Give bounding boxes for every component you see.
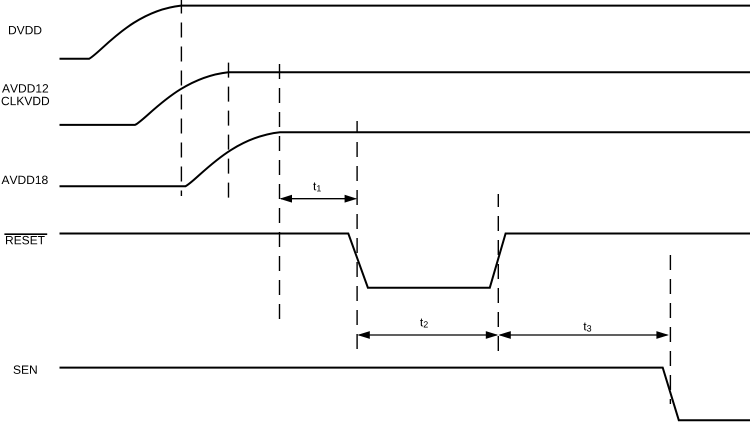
wire SEN waveform xyxy=(60,368,750,421)
dashed line 5 (RESET rising edge, x=498.3) xyxy=(497,194,499,351)
wire AVDD18 waveform xyxy=(60,132,750,186)
dashed line 1 (DVDD settled, x=181) xyxy=(180,0,182,196)
label t3 xyxy=(584,323,592,332)
dimension arrow t2 xyxy=(357,331,498,339)
dimension arrow t3 xyxy=(498,331,669,339)
label RESET xyxy=(6,236,45,245)
label CLKVDD xyxy=(2,97,50,106)
label SEN xyxy=(14,365,37,374)
wire RESET waveform xyxy=(60,234,750,288)
dashed line 2 (AVDD12 settled, x=228.5) xyxy=(228,63,230,198)
dashed line 6 (SEN falling edge, x=670.4) xyxy=(669,255,671,404)
dashed line 3 (AVDD18 settled, x=279.5) xyxy=(279,63,281,319)
label t2 xyxy=(420,319,428,328)
dimension arrow t1 xyxy=(280,195,358,203)
wire RESET overline xyxy=(4,233,47,235)
dashed line 4 (RESET falling edge, x=357) xyxy=(356,121,358,349)
wire AVDD12/CLKVDD waveform xyxy=(60,72,750,125)
label AVDD12 xyxy=(2,84,48,92)
label DVDD xyxy=(9,26,41,34)
label AVDD18 xyxy=(2,176,48,185)
wire DVDD waveform xyxy=(60,6,750,59)
label t1 xyxy=(313,182,321,191)
